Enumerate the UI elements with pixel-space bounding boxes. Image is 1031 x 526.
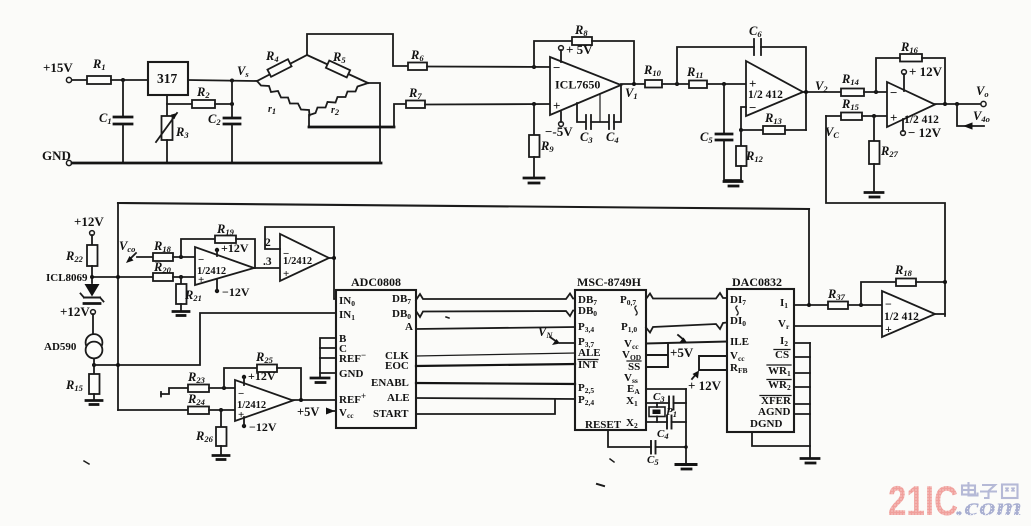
ground (R21): [173, 312, 189, 316]
wire VC feedback from U6 output: [826, 116, 945, 316]
op-amp U6 1/2 412: [882, 291, 935, 337]
wire MSC EA to rail: [646, 388, 686, 390]
svg-text:ICL8069: ICL8069: [46, 272, 88, 284]
wire MSC VDD/SS tie: [646, 344, 668, 367]
svg-text:+ 5V: + 5V: [566, 42, 593, 57]
resistor R26: [195, 408, 227, 455]
resistor R6: [408, 48, 427, 70]
svg-text:+ 12V: + 12V: [688, 378, 722, 393]
wire R1 to 317: [111, 78, 148, 82]
wire ADC A to MSC P3,4: [416, 327, 575, 329]
op-amp U1 ICL7650: [550, 57, 621, 115]
resistor R7: [406, 86, 425, 108]
node +15V input terminal: [43, 60, 73, 83]
ground (ADC ref): [311, 378, 329, 383]
svg-text:−12V: −12V: [222, 285, 250, 299]
op-amp U4 1/2412: [195, 247, 254, 286]
svg-text:−-5V: −-5V: [545, 124, 573, 139]
wire 317 adj pin: [166, 95, 168, 116]
svg-text:+12V: +12V: [74, 214, 104, 229]
resistor R22: [65, 245, 98, 283]
svg-text:+5V: +5V: [670, 345, 694, 360]
wire ADC START joining ALE line: [416, 399, 555, 414]
ground (R27): [865, 193, 883, 198]
svg-text:−: −: [553, 60, 560, 75]
svg-text:+12V: +12V: [60, 304, 90, 319]
svg-text:− 12V: − 12V: [908, 125, 942, 140]
wire DAC control pins to ground bus: [794, 343, 810, 458]
wire R15 to U3 non-inverting input: [862, 114, 887, 118]
IC U8 MSC-8749H: [575, 275, 646, 430]
resistor R15b: [65, 374, 100, 400]
strain gauge r1 (bridge arm): [257, 81, 310, 116]
resistor R11: [686, 65, 707, 88]
wire DAC I1 to R37: [794, 303, 828, 307]
capacitor C5: [700, 84, 741, 180]
resistor R25 (U6b feedback): [222, 350, 301, 400]
capacitor C4b (crystal): [646, 416, 686, 442]
wire MSC Vcc to DAC ILE (+5V): [646, 335, 727, 360]
wire crystal ground rail: [685, 389, 687, 464]
svg-text:+: +: [283, 268, 289, 280]
node +5V supply of ICL7650: [559, 42, 594, 62]
resistor R2: [167, 85, 234, 108]
wire U3 output to Vo terminal: [935, 102, 981, 106]
node +12V supply (AD590): [60, 304, 95, 334]
scan speck marks: [84, 317, 614, 486]
svg-text:−: −: [890, 85, 897, 100]
svg-text:+: +: [553, 98, 560, 113]
resistor R12: [736, 130, 764, 180]
svg-text:+: +: [885, 322, 892, 336]
svg-text:ADC0808: ADC0808: [351, 275, 401, 289]
svg-text:+12V: +12V: [248, 369, 276, 383]
svg-text:DGND: DGND: [750, 418, 782, 430]
svg-text:−: −: [749, 100, 756, 115]
ground (DAC bus): [801, 459, 819, 464]
wire MSC P1,0 to DAC DI0: [646, 323, 727, 333]
wire ADC CLK to MSC ALE: [416, 353, 575, 356]
wire bridge bottom node to R7: [309, 104, 406, 127]
svg-text:ALE: ALE: [578, 347, 601, 359]
svg-text:+12V: +12V: [221, 241, 249, 255]
ground (C5/R12): [724, 182, 742, 187]
wire ICL8069 node to rail: [90, 275, 153, 279]
DAC0832 left pin labels: [730, 294, 749, 375]
wire U2 output (node V2): [803, 79, 841, 94]
svg-text:+ 12V: + 12V: [909, 64, 943, 79]
node V4o output branch: [957, 104, 990, 130]
DAC0832 right pin labels: [750, 297, 792, 430]
svg-text:1/2412: 1/2412: [197, 266, 226, 277]
resistor R20: [153, 260, 195, 281]
wire DAC DGND to ground bus: [752, 432, 810, 446]
wire ADC DB0 to MSC DB0: [416, 311, 575, 318]
capacitor C1: [99, 80, 132, 163]
wire U2 inverting input to R13/R12: [741, 107, 746, 130]
watermark Chinese char dian: [962, 482, 978, 496]
ADC0808 left pin labels: [339, 295, 366, 420]
wire ADC EOC to MSC INT: [416, 364, 575, 366]
wire ground rail: [72, 162, 381, 165]
svg-text:317: 317: [157, 71, 178, 86]
watermark Chinese char zi: [980, 485, 997, 498]
svg-text:EOC: EOC: [385, 360, 409, 372]
svg-text:AGND: AGND: [758, 406, 790, 418]
svg-text:.com: .com: [956, 494, 1022, 521]
svg-text:1/2412: 1/2412: [237, 400, 266, 411]
node +12V supply (ICL8069): [74, 214, 104, 245]
svg-text:ALE: ALE: [387, 392, 410, 404]
wire DAC Vr to U6 non-inverting input: [794, 325, 882, 327]
wire R14 to U3 inverting input: [864, 90, 887, 94]
svg-text:AD590: AD590: [44, 341, 77, 353]
ADC0808 right pin labels: [371, 293, 413, 420]
svg-text:RESET: RESET: [585, 419, 622, 431]
node +12V supply (DAC): [688, 371, 722, 394]
svg-text:+15V: +15V: [43, 60, 73, 75]
resistor R14: [841, 72, 864, 96]
svg-text:ICL7650: ICL7650: [555, 78, 600, 92]
resistor R15: [826, 97, 862, 120]
node GND terminal: [42, 148, 72, 166]
resistor R1: [87, 57, 111, 84]
resistor R37: [827, 287, 848, 309]
wire ADC ENABL to MSC P2,5: [416, 383, 575, 384]
wire ADC ALE to MSC P2,4: [416, 398, 575, 399]
svg-text:ILE: ILE: [730, 336, 749, 348]
zener diode ICL8069: [46, 272, 104, 302]
wire U4 output to U5: [254, 267, 280, 269]
op-amp U2 1/2 412: [746, 61, 803, 116]
node +12V supply of U6b: [242, 369, 276, 385]
svg-text:START: START: [373, 408, 409, 420]
wire R10 to R11: [662, 82, 689, 86]
svg-text:MSC-8749H: MSC-8749H: [577, 275, 642, 289]
svg-text:GND: GND: [339, 368, 364, 380]
svg-text:−: −: [885, 297, 892, 311]
ground (zener): [84, 302, 100, 305]
svg-text:CS: CS: [775, 349, 789, 361]
node Vo output terminal: [976, 84, 989, 107]
resistor R4 (bridge arm): [257, 49, 307, 81]
resistor R3 (variable): [156, 113, 189, 163]
svg-text:INT: INT: [578, 359, 598, 371]
resistor R19 (U4 feedback): [179, 222, 255, 268]
wire U5 feedback loop and output to ADC IN0: [265, 227, 336, 299]
wire ADC DB7 to MSC DB7: [416, 294, 575, 301]
svg-text:r1: r1: [268, 104, 276, 116]
crystal P1: [649, 403, 677, 422]
ground (R15b): [86, 401, 102, 405]
op-amp U6b 1/2412: [235, 380, 293, 421]
wire reference rail from ICL8069 node to DAC I1: [118, 203, 809, 410]
resistor R16 (U3 feedback): [876, 40, 945, 104]
ground (R9): [524, 178, 544, 183]
MSC-8749H right pin labels: [620, 294, 642, 430]
resistor R27: [869, 116, 899, 192]
capacitor C2: [208, 80, 240, 163]
wire MSC P0,7 to DAC DI7: [646, 293, 727, 299]
resistor R10: [643, 63, 662, 88]
svg-text:.3: .3: [263, 256, 272, 268]
capacitor C3b (crystal): [646, 391, 686, 410]
svg-text:21IC: 21IC: [888, 477, 958, 524]
wire DAC Vcc/RFB tie to +12V: [699, 356, 727, 370]
wire ICL7650 output (node V1): [621, 82, 645, 101]
svg-text:+: +: [890, 110, 897, 125]
node -5V supply of ICL7650: [545, 112, 573, 139]
wire R11 to op-amp U2: [707, 82, 746, 86]
svg-text:ENABL: ENABL: [371, 377, 409, 389]
node Vco label with arrow: [119, 239, 136, 263]
wire bridge top node to R6: [307, 34, 408, 66]
wire R6 to ICL7650 inverting input: [427, 65, 550, 69]
svg-text:1/2 412: 1/2 412: [884, 311, 919, 323]
svg-text:+5V: +5V: [297, 405, 319, 419]
watermark Chinese char wang: [1002, 485, 1018, 499]
IC U9 DAC0832: [727, 275, 794, 432]
node -12V supply of U4: [215, 279, 250, 299]
ground (R26): [213, 456, 229, 460]
wire 317 output to bridge (node Vs): [188, 79, 257, 83]
node -12V supply of U6b: [242, 417, 277, 434]
node +12V supply of U3: [902, 64, 943, 91]
svg-text:DAC0832: DAC0832: [732, 275, 782, 289]
wire ADC B/C/REF-/GND bus to ground: [320, 338, 336, 377]
op-amp U5 follower 1/2412: [263, 234, 329, 281]
capacitor C5b (reset): [608, 430, 688, 467]
resistor R18a: [137, 239, 195, 261]
resistor R13: [739, 111, 806, 134]
node +12V supply of U4: [215, 241, 249, 256]
resistor R8 (ICL7650 feedback): [534, 23, 634, 84]
svg-text:1/2412: 1/2412: [283, 256, 312, 267]
current source AD590: [44, 334, 102, 374]
IC U7 ADC0808: [336, 275, 416, 428]
svg-text:−: −: [238, 388, 244, 400]
wire R7 to ICL7650 non-inverting input: [425, 102, 550, 106]
svg-text:−: −: [198, 254, 204, 266]
op-amp U3 1/2 412: [887, 82, 939, 127]
resistor R23: [161, 370, 235, 397]
wire bridge right node to ground rail: [368, 83, 380, 163]
svg-text:r2: r2: [331, 105, 340, 117]
wire AD590 node to ADC IN1: [92, 313, 336, 367]
svg-text:−12V: −12V: [249, 420, 277, 434]
resistor R18b (U6 feedback): [861, 263, 947, 305]
regulator U 317: [148, 62, 188, 95]
resistor R24: [118, 392, 235, 414]
resistor R9: [529, 104, 554, 178]
wire U6 output: [935, 313, 945, 315]
wire R37 to U6 inverting input: [848, 303, 882, 307]
node VN label with arrow: [538, 325, 575, 345]
wire U6b output (+5V) to ADC REF+/Vcc: [293, 398, 336, 419]
svg-text:A: A: [405, 321, 413, 333]
capacitor C4 (ICL7650 clamp): [606, 86, 621, 145]
capacitor C6 (integrator feedback): [677, 24, 806, 130]
wire +15V to R1: [72, 79, 87, 81]
resistor R21: [176, 275, 202, 311]
MSC-8749H left pin labels: [578, 294, 622, 431]
node -12V supply of U3: [901, 119, 942, 140]
ground (crystal rail): [676, 465, 696, 470]
strain gauge r2 (bridge arm): [310, 83, 369, 117]
capacitor C3 (ICL7650 clamp): [577, 94, 608, 145]
resistor R5 (bridge arm): [307, 50, 368, 83]
